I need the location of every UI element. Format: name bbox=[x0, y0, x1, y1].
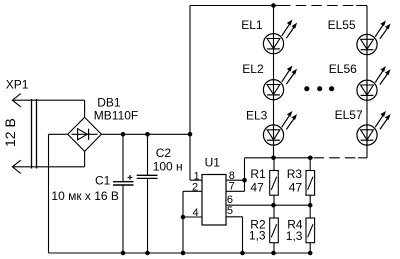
svg-text:R1: R1 bbox=[250, 167, 266, 181]
svg-text:7: 7 bbox=[229, 181, 235, 193]
svg-text:10 мк x 16 В: 10 мк x 16 В bbox=[51, 189, 119, 203]
svg-text:C1: C1 bbox=[95, 173, 111, 187]
svg-text:47: 47 bbox=[250, 181, 264, 195]
svg-text:5: 5 bbox=[227, 205, 233, 217]
svg-text:EL57: EL57 bbox=[335, 108, 363, 122]
svg-text:EL55: EL55 bbox=[328, 18, 356, 32]
svg-text:12 В: 12 В bbox=[2, 118, 18, 147]
svg-text:EL2: EL2 bbox=[242, 62, 264, 76]
svg-text:100 н: 100 н bbox=[153, 160, 183, 174]
svg-text:2: 2 bbox=[192, 182, 198, 194]
svg-text:6: 6 bbox=[227, 194, 233, 206]
svg-text:C2: C2 bbox=[156, 146, 172, 160]
svg-text:MB110F: MB110F bbox=[94, 108, 138, 122]
svg-text:EL1: EL1 bbox=[241, 18, 263, 32]
svg-text:47: 47 bbox=[289, 181, 303, 195]
svg-text:XP1: XP1 bbox=[6, 78, 29, 92]
svg-text:1,3: 1,3 bbox=[286, 229, 303, 243]
svg-text:1,3: 1,3 bbox=[249, 228, 266, 242]
svg-text:U1: U1 bbox=[205, 156, 221, 170]
svg-text:EL56: EL56 bbox=[329, 62, 357, 76]
svg-text:4: 4 bbox=[193, 207, 199, 219]
svg-text:R3: R3 bbox=[287, 167, 303, 181]
svg-text:EL3: EL3 bbox=[246, 108, 268, 122]
